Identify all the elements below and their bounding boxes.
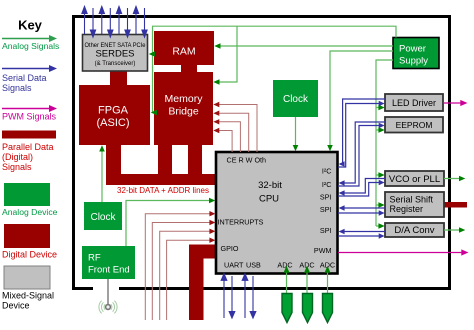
antenna waves left	[99, 301, 105, 314]
wire ADC 1	[286, 272, 288, 294]
wire serdes pair Other	[82, 7, 96, 38]
svg-text:Mixed-Signal: Mixed-Signal	[2, 291, 54, 301]
wire CPU I2C to EEPROM	[338, 126, 381, 187]
block Clock upper	[273, 80, 318, 117]
arrow ADC 3 into CPU	[325, 266, 331, 273]
legend label Parallel Data (Digital) Signals	[2, 142, 54, 172]
svg-text:SERDES: SERDES	[95, 49, 134, 60]
block LED Driver	[385, 94, 443, 111]
arrow ADC 2 into CPU	[304, 266, 310, 273]
arrow clock into CPU top	[293, 145, 299, 151]
arrow into CPU SPI2	[339, 205, 345, 210]
arrow W into Memory Bridge	[213, 111, 219, 116]
GPIO parallel bus bar	[189, 245, 216, 321]
wire power top line to SERDES and FPGA	[151, 26, 396, 112]
wire D/A analog output	[444, 229, 462, 231]
wire power distribution right column	[376, 60, 393, 226]
arrow D/A output	[459, 227, 465, 233]
wire interrupt 3	[160, 231, 213, 320]
arrow PWM out	[461, 249, 468, 255]
block EEPROM	[385, 117, 443, 133]
arrow into Serial Shift Register	[379, 210, 385, 215]
svg-text:Signals: Signals	[2, 83, 32, 93]
legend analog device box	[4, 183, 50, 206]
arrow RF into CPU left	[209, 198, 215, 204]
wire RF front end to CPU	[126, 201, 213, 247]
Memory Bridge label	[165, 93, 204, 118]
arrow power into SERDES	[149, 51, 155, 57]
svg-text:SPI: SPI	[320, 226, 332, 235]
svg-text:Memory: Memory	[165, 93, 204, 105]
wire LED driver output	[443, 102, 462, 104]
arrow into CPU I2C2	[339, 180, 345, 185]
connector RAM-MemoryBridge	[181, 64, 197, 73]
wire interrupt 1	[145, 214, 212, 320]
wire LED Driver to CPU I2C	[340, 99, 385, 164]
wire CPU I2C to LED Driver	[338, 104, 381, 168]
connector SERDES-FPGA	[110, 71, 127, 85]
arrow power into EEPROM	[378, 127, 384, 133]
wire PWM out	[338, 252, 463, 254]
legend analog signal arrow	[2, 35, 57, 42]
svg-text:RF: RF	[88, 253, 101, 264]
arrow VCO output	[459, 176, 465, 182]
arrow ADC 1 into CPU	[284, 266, 290, 273]
wire serdes pair SATA	[116, 7, 130, 38]
legend PWM arrow	[2, 105, 57, 112]
svg-text:I²C: I²C	[322, 167, 332, 176]
wire ADC 2	[306, 272, 308, 294]
svg-text:Key: Key	[18, 18, 43, 33]
svg-text:GPIO: GPIO	[221, 244, 239, 253]
ADC probe 3	[323, 294, 333, 323]
arrow into LED Driver	[379, 101, 385, 106]
arrow power into LED Driver	[378, 105, 384, 111]
bus FPGA leg	[106, 145, 121, 175]
legend mixed-signal device box	[4, 266, 50, 289]
arrow R into Memory Bridge	[213, 119, 219, 124]
block D/A Conv	[385, 223, 444, 237]
svg-text:Analog Device: Analog Device	[2, 207, 58, 217]
svg-text:ADC: ADC	[277, 261, 292, 270]
svg-text:SPI: SPI	[320, 205, 332, 214]
block FPGA	[79, 85, 150, 145]
svg-text:EEPROM: EEPROM	[396, 120, 433, 130]
arrow interrupt 2 into CPU	[209, 220, 215, 225]
svg-text:(Digital): (Digital)	[2, 152, 33, 162]
svg-text:Device: Device	[2, 301, 30, 311]
arrow into EEPROM	[379, 123, 385, 128]
legend parallel data bar	[2, 131, 56, 139]
svg-text:PWM Signals: PWM Signals	[2, 112, 57, 122]
svg-text:VCO or PLL: VCO or PLL	[389, 174, 440, 185]
svg-text:(& Transceiver): (& Transceiver)	[95, 61, 136, 67]
legend serial data arrow	[2, 65, 57, 72]
block Clock lower	[84, 202, 122, 230]
arrow clock into FPGA bottom	[99, 145, 105, 151]
ADC probe 2	[303, 294, 313, 323]
arrow LED driver output	[460, 100, 467, 106]
wire serdes pair ENET	[99, 7, 113, 38]
svg-text:Bridge: Bridge	[168, 106, 199, 118]
wire CPU Oth to Memory Bridge	[215, 105, 257, 153]
ADC probe 1	[282, 294, 292, 323]
svg-text:Signals: Signals	[2, 162, 32, 172]
bus memory bridge leg 1	[158, 145, 172, 175]
wire ADC 3	[327, 272, 329, 294]
arrow into CPU I2C1	[339, 161, 345, 166]
svg-text:Parallel Data: Parallel Data	[2, 142, 54, 152]
arrow power into CPU top	[327, 145, 333, 151]
arrow power into D/A Conv	[378, 223, 384, 229]
wire CPU R to Memory Bridge	[215, 122, 240, 152]
svg-text:Clock: Clock	[283, 94, 309, 105]
svg-text:UART: UART	[224, 261, 244, 270]
svg-text:Digital Device: Digital Device	[2, 250, 57, 260]
svg-text:SPI: SPI	[320, 193, 332, 202]
svg-text:(ASIC): (ASIC)	[97, 117, 130, 129]
arrow CE into Memory Bridge	[213, 128, 219, 133]
arrow Oth into Memory Bridge	[213, 102, 219, 107]
wire CPU SPI to D/A Conv	[338, 235, 381, 237]
svg-text:Supply: Supply	[399, 56, 428, 67]
wire Serial Shift Register to CPU SPI	[340, 207, 385, 209]
svg-text:Serial Shift: Serial Shift	[390, 195, 434, 205]
svg-text:Serial Data: Serial Data	[2, 73, 47, 83]
wire UART out	[221, 274, 235, 318]
wire VCO to CPU SPI	[340, 179, 385, 194]
wire CPU CE to Memory Bridge	[215, 131, 232, 153]
arrow into CPU SPI3	[339, 229, 345, 234]
wire VCO analog output	[444, 178, 462, 180]
svg-text:CE R W Oth: CE R W Oth	[227, 156, 267, 165]
svg-text:USB: USB	[246, 261, 261, 270]
wire CPU W to Memory Bridge	[215, 113, 249, 152]
svg-text:Front End: Front End	[88, 265, 130, 276]
block RF Front End	[82, 246, 135, 279]
bus 32-bit data + addr bar	[106, 174, 216, 185]
board outline	[74, 17, 450, 289]
svg-text:PWM: PWM	[314, 246, 332, 255]
svg-text:CPU: CPU	[259, 194, 279, 205]
block SERDES	[83, 35, 148, 72]
arrow power into RAM	[214, 43, 220, 49]
wire D/A Conv to CPU SPI	[340, 231, 385, 233]
wire EEPROM to CPU I2C	[340, 122, 385, 183]
wire power to RAM	[216, 45, 393, 47]
block RAM	[154, 31, 214, 65]
arrow into CPU SPI1	[339, 190, 345, 195]
wire interrupt 2	[152, 223, 212, 321]
CPU title	[258, 180, 282, 205]
arrow interrupt 1 into CPU	[209, 211, 215, 216]
arrow power into Serial Shift Register	[378, 202, 384, 208]
svg-text:INTERRUPTS: INTERRUPTS	[218, 218, 264, 227]
antenna feed line	[107, 279, 109, 305]
svg-text:32-bit DATA + ADDR lines: 32-bit DATA + ADDR lines	[117, 186, 209, 195]
wire power to Memory Bridge	[215, 26, 237, 82]
svg-text:Analog Signals: Analog Signals	[2, 41, 59, 51]
svg-text:LED Driver: LED Driver	[392, 98, 436, 108]
FPGA label	[97, 105, 130, 130]
arrow power into VCO	[378, 172, 384, 178]
Serial Shift Register label	[390, 195, 434, 215]
wire interrupt 4	[167, 240, 213, 320]
RF Front End label	[88, 253, 130, 276]
arrow power into Memory Bridge	[213, 79, 219, 85]
legend digital device box	[4, 224, 50, 248]
bus memory bridge leg 2	[188, 145, 202, 175]
legend label Serial Data Signals	[2, 73, 47, 93]
block Serial Shift Register	[385, 192, 444, 217]
wire clock upper to CPU	[295, 117, 297, 149]
svg-text:Power: Power	[399, 44, 426, 55]
svg-text:32-bit: 32-bit	[258, 180, 282, 191]
arrow into D/A Conv	[379, 233, 385, 238]
block Memory Bridge	[154, 72, 213, 145]
wire CPU SPI to VCO	[338, 183, 381, 197]
svg-text:D/A Conv: D/A Conv	[394, 225, 434, 236]
antenna node	[106, 305, 111, 310]
wire CPU SPI to Serial Shift Register	[338, 212, 381, 214]
wire USB out	[242, 274, 256, 318]
wire power to CPU top	[330, 51, 393, 149]
wire serdes pair PCIe	[133, 7, 147, 38]
arrow interrupt 4 into CPU	[209, 238, 215, 243]
block VCO or PLL	[385, 171, 444, 186]
arrow power into FPGA	[151, 110, 157, 116]
Power Supply label	[399, 44, 428, 67]
arrow into VCO	[379, 180, 385, 185]
antenna gap in border	[93, 285, 119, 292]
block Power Supply	[393, 38, 439, 69]
arrow interrupt 3 into CPU	[209, 229, 215, 234]
svg-text:Register: Register	[390, 204, 424, 214]
svg-text:Clock: Clock	[90, 212, 116, 223]
svg-text:I²C: I²C	[322, 180, 332, 189]
svg-text:FPGA: FPGA	[98, 105, 129, 117]
legend label Mixed-Signal Device	[2, 291, 54, 311]
wire clock lower to FPGA	[101, 148, 103, 202]
block CPU	[216, 152, 338, 274]
svg-text:RAM: RAM	[172, 46, 195, 58]
antenna waves right	[111, 301, 117, 314]
serial shift register output bar	[444, 202, 467, 208]
